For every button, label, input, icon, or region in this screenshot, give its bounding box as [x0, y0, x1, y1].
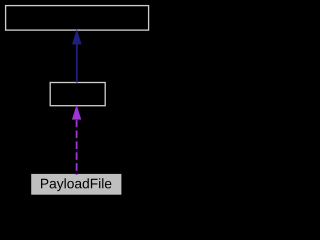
edge: inheritance arrowhead [72, 29, 82, 44]
edge: usage arrowhead [72, 105, 81, 120]
node: middle box (unlabeled) [50, 83, 105, 106]
node: top box (unlabeled) [6, 6, 149, 31]
label PayloadFile [41, 178, 111, 191]
node: PayloadFile box [31, 174, 121, 195]
edge: inheritance arrow (solid) line [76, 44, 78, 83]
edge: usage arrow (dashed) line [76, 120, 78, 175]
